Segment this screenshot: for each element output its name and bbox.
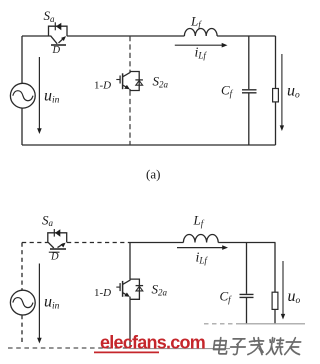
svg-text:Lf: Lf <box>190 14 202 30</box>
svg-text:Lf: Lf <box>193 213 205 229</box>
svg-text:D: D <box>52 45 61 56</box>
svg-text:1-D: 1-D <box>94 287 111 299</box>
svg-text:S2a: S2a <box>153 74 169 90</box>
svg-text:D: D <box>50 251 59 262</box>
svg-text:S2a: S2a <box>152 282 168 298</box>
svg-text:elecfans.com: elecfans.com <box>100 332 205 352</box>
svg-text:Cf: Cf <box>221 83 234 99</box>
svg-text:uo: uo <box>288 288 301 306</box>
svg-text:uin: uin <box>44 294 60 312</box>
svg-text:Sa: Sa <box>42 213 54 229</box>
svg-text:uin: uin <box>44 88 60 106</box>
svg-text:Cf: Cf <box>220 289 233 305</box>
svg-text:Sa: Sa <box>44 8 56 24</box>
svg-text:(a): (a) <box>146 167 160 182</box>
svg-text:iLf: iLf <box>196 251 209 266</box>
svg-text:iLf: iLf <box>195 46 208 61</box>
svg-text:uo: uo <box>287 83 300 101</box>
svg-text:1-D: 1-D <box>94 80 111 92</box>
